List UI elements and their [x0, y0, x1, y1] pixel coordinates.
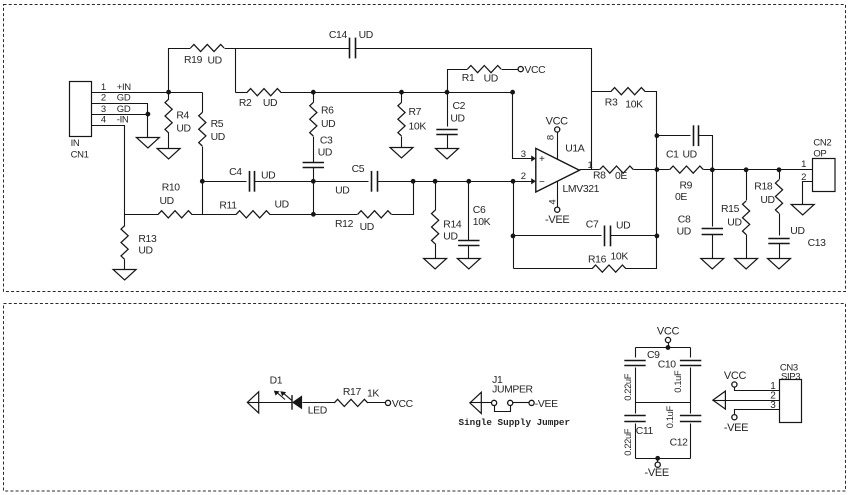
terminal -VEE at cap block: [645, 462, 669, 479]
svg-text:C14: C14: [329, 30, 348, 41]
wire to R14: [435, 182, 437, 211]
node C6 top: [466, 179, 471, 184]
svg-text:R8: R8: [593, 170, 606, 181]
ground below R4: [157, 149, 180, 160]
wire R18 to C13: [779, 214, 781, 236]
svg-text:C11: C11: [636, 426, 654, 437]
wire R3 right down: [645, 92, 657, 170]
label J1: [492, 375, 503, 386]
wire CN1 pin1 +IN to node: [92, 92, 203, 94]
wire arrow to LED: [259, 402, 293, 404]
capacitor C12: [670, 416, 702, 449]
wire C8 to ground: [712, 235, 714, 259]
connector CN1: [70, 82, 92, 161]
wire C3 node to R11 line: [313, 182, 315, 215]
svg-text:10K: 10K: [625, 99, 643, 110]
op-amp output pin 1: [580, 160, 600, 171]
wire right bottom branch: [690, 403, 692, 414]
resistor R5: [199, 112, 225, 146]
node R18 top: [777, 167, 782, 172]
wire C1 left: [657, 135, 691, 137]
CN2 pin 2 label: [801, 172, 806, 183]
svg-text:1: 1: [801, 159, 806, 170]
wire C14 to feedback drop: [356, 49, 592, 170]
wire -IN line to R10: [125, 214, 159, 216]
jumper J1 pin 1: [492, 400, 497, 405]
label -VEE at J1: [535, 399, 558, 410]
wire R3 left: [592, 91, 612, 93]
wire C4 to C5: [255, 181, 369, 183]
svg-text:+IN: +IN: [117, 82, 131, 93]
svg-text:C6: C6: [473, 205, 486, 216]
svg-text:C2: C2: [453, 101, 466, 112]
wire C7 left: [514, 235, 602, 237]
wire R14 to ground: [435, 244, 437, 259]
svg-text:-VEE: -VEE: [545, 214, 569, 226]
svg-text:3: 3: [521, 149, 526, 160]
wire arrow to CN3 pin2: [726, 400, 780, 402]
node C7 left: [511, 234, 516, 239]
svg-text:UD: UD: [275, 200, 289, 211]
wire down to op-amp pin 3: [513, 93, 532, 159]
node R8/R9: [655, 167, 660, 172]
node C7 right: [655, 234, 660, 239]
capacitor C2: [436, 101, 465, 135]
svg-text:0.22uF: 0.22uF: [623, 428, 633, 456]
node C1 left: [655, 133, 660, 138]
wire C13 to ground: [779, 244, 781, 259]
svg-text:UD: UD: [450, 113, 464, 124]
label U1A: [565, 143, 585, 154]
ground GD: [136, 138, 159, 149]
svg-text:C5: C5: [352, 164, 365, 175]
resistor R3: [605, 88, 645, 111]
svg-text:4: 4: [101, 115, 106, 126]
resistor R2: [239, 89, 281, 109]
svg-text:-VEE: -VEE: [724, 422, 748, 434]
jumper J1 pin 3: [529, 400, 534, 405]
capacitor C14: [329, 30, 373, 58]
label C9 value 0.22uF: [623, 373, 633, 401]
jumper J1 bar: [495, 406, 511, 412]
terminal -VEE at op-amp: [545, 207, 569, 226]
op-amp input arrow pin 2: [521, 171, 536, 184]
svg-text:C10: C10: [658, 360, 677, 371]
wire bottom rail to -VEE: [657, 459, 659, 463]
wire R6 to C3: [313, 137, 315, 163]
wire left bottom branch: [635, 403, 637, 414]
wire C5 to op-amp pin 2: [378, 181, 532, 183]
ground below R7: [390, 148, 413, 159]
svg-text:R7: R7: [409, 107, 422, 118]
svg-text:R2: R2: [239, 98, 252, 109]
node R6 top: [311, 90, 316, 95]
svg-text:UD: UD: [443, 232, 457, 243]
node GD junction: [146, 112, 151, 117]
wire VCC to top rail: [668, 343, 670, 348]
ground below CN2 pin2: [791, 205, 814, 216]
resistor R1: [462, 66, 501, 85]
diode D1 LED: [270, 375, 327, 416]
ground below C13: [768, 259, 791, 270]
wire R1 to VCC: [502, 69, 519, 71]
svg-text:0E: 0E: [675, 192, 687, 203]
capacitor C6: [458, 205, 491, 246]
svg-text:−: −: [539, 177, 545, 188]
svg-text:C8: C8: [678, 215, 691, 226]
svg-text:-VEE: -VEE: [645, 467, 669, 479]
svg-text:VCC: VCC: [392, 399, 414, 410]
wire C9 to mid rail: [635, 368, 637, 403]
connector CN3: [780, 363, 802, 423]
terminal VCC at cap block: [657, 326, 680, 343]
ground below R14: [424, 259, 447, 270]
svg-text:C1: C1: [666, 149, 679, 160]
svg-text:1: 1: [588, 160, 593, 171]
svg-text:R1: R1: [462, 73, 475, 84]
wire C4 line left: [203, 181, 247, 183]
svg-text:UD: UD: [760, 195, 774, 206]
label C10 value 0.1uF: [673, 370, 683, 393]
svg-text:2: 2: [521, 171, 526, 182]
wire bottom rail: [636, 458, 691, 460]
op-amp pin 4 VEE stub: [547, 182, 558, 208]
wire R19 to C14 and R2 drop: [225, 49, 350, 93]
node C4 line left: [200, 179, 205, 184]
svg-text:UD: UD: [176, 123, 190, 134]
ground below C8: [701, 259, 724, 270]
svg-text:UD: UD: [208, 55, 222, 66]
resistor R6: [310, 102, 336, 136]
wire R15 to ground: [746, 235, 748, 259]
svg-text:SIP3: SIP3: [781, 371, 800, 382]
svg-text:UD: UD: [263, 98, 277, 109]
resistor R11: [219, 200, 288, 218]
svg-text:UD: UD: [683, 149, 697, 160]
wire CN1 pin4 -IN: [92, 126, 125, 215]
jumper J1 pin 2: [508, 400, 513, 405]
ground below R13: [113, 270, 136, 281]
svg-text:UD: UD: [335, 185, 349, 196]
svg-text:R6: R6: [321, 106, 334, 117]
svg-text:3: 3: [101, 104, 106, 115]
svg-text:R11: R11: [219, 201, 237, 212]
svg-text:UD: UD: [677, 227, 691, 238]
capacitor C10: [658, 360, 702, 371]
op-amp pin 8 VCC stub: [546, 133, 558, 160]
wire C2 node up to R1: [448, 70, 468, 93]
wire LED to R17: [303, 402, 335, 404]
wire C11 to bottom rail: [635, 424, 637, 459]
label JUMPER: [492, 385, 533, 396]
wire R16 right up to output: [626, 170, 657, 269]
capacitor C8: [677, 215, 723, 238]
svg-text:R16: R16: [588, 255, 607, 266]
svg-text:R3: R3: [605, 98, 618, 109]
svg-text:8: 8: [546, 135, 557, 140]
svg-text:0.22uF: 0.22uF: [623, 373, 633, 401]
pin 4 label -IN: [101, 115, 129, 126]
svg-text:R14: R14: [443, 220, 462, 231]
svg-text:CN2: CN2: [813, 138, 831, 149]
wire R13 to ground: [124, 260, 126, 270]
node VCC rail: [666, 345, 671, 350]
wire to C8: [712, 170, 714, 227]
wire to C2: [447, 93, 449, 127]
terminal VCC at R17: [385, 399, 413, 410]
svg-text:UD: UD: [138, 245, 152, 256]
wire R4 to ground: [168, 133, 170, 149]
resistor R16: [588, 252, 628, 273]
svg-text:Single Supply Jumper: Single Supply Jumper: [459, 417, 571, 428]
off-page arrow at D1: [247, 392, 258, 413]
svg-text:R5: R5: [211, 119, 224, 130]
wire right top branch: [690, 348, 692, 358]
svg-text:VCC: VCC: [546, 115, 569, 127]
svg-text:UD: UD: [211, 132, 225, 143]
svg-text:D1: D1: [270, 375, 283, 386]
svg-text:GD: GD: [117, 93, 131, 104]
off-page arrow at J1: [470, 392, 482, 413]
svg-text:UD: UD: [318, 147, 332, 158]
svg-text:R4: R4: [176, 111, 189, 122]
node -VEE rail: [655, 456, 660, 461]
label C11 value 0.22uF: [623, 428, 633, 456]
wire CN2 pin2 to ground: [803, 182, 813, 205]
node R12 top: [411, 179, 416, 184]
svg-text:-VEE: -VEE: [535, 399, 558, 410]
svg-text:IN: IN: [71, 138, 80, 149]
wire C7 right: [611, 235, 657, 237]
svg-text:UD: UD: [321, 119, 335, 130]
svg-text:10K: 10K: [409, 121, 427, 132]
node C3 bottom: [311, 179, 316, 184]
svg-text:2: 2: [101, 93, 106, 104]
svg-text:R18: R18: [754, 182, 773, 193]
wire R5 down to C4 line: [202, 147, 204, 215]
off-page arrow at CN3: [713, 391, 726, 409]
wire C10 to mid rail: [690, 368, 692, 403]
ground below C2: [436, 149, 459, 160]
svg-text:UD: UD: [484, 74, 498, 85]
capacitor C9: [624, 350, 660, 366]
terminal -VEE at CN3: [724, 415, 748, 434]
CN3 pin 1 label: [770, 381, 776, 392]
svg-text:GD: GD: [117, 104, 131, 115]
resistor R9: [670, 166, 704, 203]
svg-text:LED: LED: [308, 406, 327, 417]
wire R9 to CN2: [704, 169, 813, 171]
wire arrow to J1 pin1: [482, 402, 492, 404]
wire to R6: [313, 93, 315, 103]
label Single Supply Jumper: [459, 417, 571, 428]
wire to R7: [401, 93, 403, 103]
svg-text:0.1uF: 0.1uF: [665, 406, 675, 429]
wire CN1 pin3 GD: [92, 114, 148, 116]
wire pin2 node down: [513, 182, 515, 269]
wire CN1 pin2 GD: [92, 104, 148, 115]
svg-text:UD: UD: [616, 221, 630, 232]
resistor R17: [334, 387, 379, 407]
wire C3 to line: [313, 168, 315, 182]
svg-text:R17: R17: [343, 387, 362, 398]
svg-text:+: +: [539, 154, 545, 165]
CN3 pin 2 label: [770, 391, 776, 402]
resistor R7: [398, 102, 426, 136]
svg-text:R10: R10: [162, 183, 181, 194]
wire CN3 pin3 to -VEE: [735, 410, 780, 415]
capacitor C7: [586, 219, 631, 246]
node C2/R1: [445, 90, 450, 95]
op-amp input arrow pin 3: [521, 149, 536, 161]
wire R8-R9: [634, 169, 670, 171]
wire R2 left stub: [236, 92, 248, 94]
svg-text:-IN: -IN: [117, 115, 129, 126]
wire +IN to R5: [202, 93, 204, 113]
wire C2 to ground: [447, 135, 449, 149]
wire R2 to pin3 drop: [281, 92, 513, 94]
resistor R18: [754, 180, 782, 214]
svg-text:UD: UD: [359, 30, 373, 41]
svg-text:1: 1: [101, 82, 106, 93]
svg-text:C7: C7: [586, 219, 599, 230]
wire to R18: [779, 170, 781, 180]
svg-text:0.1uF: 0.1uF: [673, 370, 683, 393]
svg-text:R9: R9: [680, 180, 693, 191]
ground below R15: [735, 259, 758, 270]
frame: bottom section dashed border: [4, 304, 846, 492]
wire R12 up to line: [392, 182, 414, 215]
wire R7 to ground: [401, 137, 403, 148]
svg-text:UD: UD: [727, 217, 741, 228]
svg-text:LMV321: LMV321: [563, 184, 600, 195]
label LMV321: [563, 184, 600, 195]
LED light arrows: [274, 391, 292, 401]
svg-text:JUMPER: JUMPER: [492, 385, 533, 396]
wire +IN to R4: [168, 93, 170, 100]
wire left top branch: [635, 348, 637, 358]
capacitor C13: [768, 226, 826, 249]
node pin3 drop: [510, 90, 515, 95]
capacitor C5: [335, 164, 377, 196]
wire to R15: [746, 170, 748, 201]
svg-text:1K: 1K: [367, 388, 379, 399]
node R14 top: [433, 179, 438, 184]
wire +IN up to R19: [169, 49, 191, 93]
svg-text:UD: UD: [261, 170, 275, 181]
wire R16 left: [514, 268, 593, 270]
svg-text:UD: UD: [790, 226, 804, 237]
connector CN2: [813, 138, 836, 192]
svg-text:R13: R13: [138, 234, 157, 245]
CN3 pin 3 label: [770, 400, 776, 411]
wire to C6: [468, 182, 470, 241]
wire VCC to CN3 pin1: [735, 388, 780, 391]
capacitor C11: [624, 416, 653, 438]
CN2 pin 1 label: [801, 159, 806, 170]
capacitor C3: [303, 136, 333, 168]
svg-text:C4: C4: [229, 167, 242, 178]
svg-text:C3: C3: [320, 136, 333, 147]
svg-text:UD: UD: [360, 222, 374, 233]
svg-text:UD: UD: [160, 196, 174, 207]
resistor R19: [184, 44, 224, 66]
svg-text:R12: R12: [335, 219, 354, 230]
terminal VCC at R1: [518, 65, 546, 76]
wire GD to ground: [147, 115, 149, 138]
resistor R15: [721, 201, 750, 235]
resistor R8: [593, 166, 633, 182]
wire mid rail: [636, 402, 691, 404]
pin 2 label GD: [101, 93, 131, 104]
wire C12 to bottom rail: [690, 424, 692, 459]
terminal VCC at op-amp: [546, 115, 569, 132]
resistor R10: [158, 183, 192, 218]
wire R11 to R12: [270, 214, 358, 216]
node C8 top: [710, 167, 715, 172]
terminal VCC at CN3: [724, 370, 747, 387]
svg-text:4: 4: [547, 200, 558, 205]
node R15 top: [744, 167, 749, 172]
wire C1 right down: [699, 136, 713, 170]
resistor R13: [121, 226, 157, 260]
node +IN junction: [166, 90, 171, 95]
svg-text:R15: R15: [721, 204, 740, 215]
label C12 value 0.1uF: [665, 406, 675, 429]
wire -IN corner to R13: [124, 215, 126, 227]
node pin2 feedback: [511, 179, 516, 184]
wire R10 to R11: [192, 214, 237, 216]
op-amp U1A triangle: [536, 148, 580, 192]
svg-text:10K: 10K: [473, 217, 491, 228]
svg-text:10K: 10K: [611, 252, 629, 263]
wire C6 to ground: [468, 246, 470, 259]
wire J1 pin2 to pin3: [513, 402, 529, 404]
resistor R12: [335, 211, 391, 233]
ground below C6: [457, 259, 480, 270]
resistor R14: [432, 210, 462, 244]
svg-text:VCC: VCC: [657, 326, 680, 338]
svg-text:U1A: U1A: [565, 143, 585, 154]
pin 1 label +IN: [101, 82, 131, 93]
node R7 top: [399, 90, 404, 95]
svg-text:VCC: VCC: [524, 65, 546, 76]
svg-text:C12: C12: [670, 437, 689, 448]
svg-text:0E: 0E: [615, 171, 627, 182]
wire R17 to VCC: [368, 402, 386, 404]
node R11/R12 center: [311, 212, 316, 217]
capacitor C1: [666, 125, 699, 160]
svg-text:C13: C13: [808, 238, 827, 249]
svg-text:OP: OP: [813, 149, 826, 160]
pin 3 label GD: [101, 104, 131, 115]
capacitor C4: [229, 167, 275, 192]
wire top rail: [636, 347, 691, 349]
svg-text:VCC: VCC: [724, 370, 747, 382]
resistor R4: [165, 99, 191, 134]
svg-text:CN1: CN1: [71, 150, 89, 161]
frame: top section dashed border: [4, 5, 846, 292]
svg-text:R19: R19: [184, 55, 203, 66]
